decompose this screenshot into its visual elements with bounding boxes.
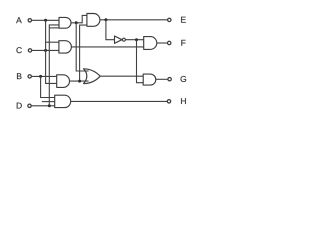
wire E junction riser down to NOT input [106,20,115,40]
node B-gate output junction [78,80,81,83]
wire stub at D-gate output level [42,101,55,103]
input terminal B [28,75,31,78]
wire NOT output to gate4.in1 [125,39,143,41]
wire H output line [71,100,168,102]
label C [16,47,21,53]
wire gate3.in2 stub + riser down to B-gate out [80,25,87,81]
label D [17,103,22,109]
wire F output [157,42,168,44]
wire junction down to G-gate.in2 [137,40,144,83]
output terminal F [168,41,171,44]
label F [181,40,185,46]
input terminal C [28,49,31,52]
node D junction [48,104,51,107]
and-gate U9 (D row) [55,95,71,107]
input terminal A [28,19,31,22]
wire OR output to G-gate.in1 [100,75,143,77]
wire V1: A riser down, tee to gate2.in1, through C dot, to B-gate.in2 [46,20,57,83]
and-gate U3 (E) [87,14,100,27]
output terminal H [167,100,170,103]
wire A line [32,19,60,21]
and-gate U6 (B row) [57,75,70,88]
label H [181,98,186,104]
wire E output line [100,19,168,21]
label G [181,76,187,82]
node C junction [44,49,47,52]
wire gate1 output [71,15,87,22]
node E junction [104,18,107,21]
output terminal G [168,78,171,81]
node gate1 output junction [75,21,78,24]
node NOT output junction [135,38,138,41]
output terminal E [168,18,171,21]
wire B branch down to D-gate.in1 [41,76,55,97]
wire B line [31,75,56,77]
label A [16,17,22,23]
wire gate1.in2 stub + V2 down to D line [49,25,59,106]
label B [17,73,22,79]
and-gate U2 (C row) [59,41,71,53]
node A junction [44,19,47,22]
or-gate U7 [84,69,101,84]
not-gate U5 (inverter) [115,36,122,43]
wire G output [156,78,168,80]
wire B-gate output to OR.in2 [70,80,89,82]
node B junction [39,75,42,78]
input terminal D [28,104,31,107]
wire C line [32,49,59,51]
not-gate bubble [122,38,125,41]
and-gate U8 (G) [143,74,156,85]
wire branch V1 to gate2 input1 [46,41,59,43]
label E [181,17,186,23]
wire D line [31,105,54,107]
wire gate1-out down to OR input1 [76,23,88,71]
wire gate2 output to gate4.in2 [71,46,143,48]
and-gate U4 (F) [144,37,157,50]
and-gate U1 (A row) [59,17,71,28]
